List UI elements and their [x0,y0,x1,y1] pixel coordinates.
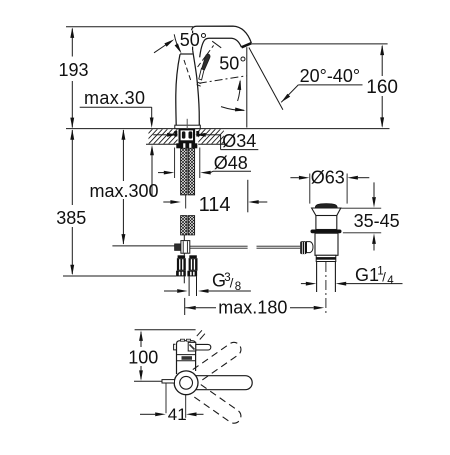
spout outlet face [242,43,252,47]
side view: swivel ghost tube up-right (dashed) [193,342,241,381]
drain seal ring [311,230,342,234]
left nut tail [183,276,185,283]
dimension 35-45 [339,207,381,209]
pop-up rod and tee [183,235,185,241]
dimension 160 (spout height) [381,46,383,76]
svg-text:Ø34: Ø34 [222,131,256,151]
pop-up rod reference line [112,245,174,247]
lever ghost position (dashed, up-right) [198,45,214,67]
dimension max.180 [184,298,186,315]
neck left edge segments [192,31,194,33]
supply connection nuts G3/8 [176,255,197,276]
hose stubs (lower) [181,216,187,235]
svg-text:50°: 50° [180,30,207,50]
side view: spout tube (solid) [190,376,252,390]
mounting shank assembly below deck [174,129,199,148]
dimension Ø63 [290,177,299,179]
dimension 114 (spout reach) [163,201,170,203]
faucet centre line tick [186,119,188,134]
water stream angle line [249,48,283,110]
outlet vertical reference line [246,47,248,127]
cone top rim [180,53,193,55]
svg-text:41: 41 [168,405,187,424]
angle arc with right arrow [221,107,244,111]
lever axis dash-dot line [199,76,247,83]
svg-text:max.30: max.30 [84,88,145,108]
svg-text:8: 8 [235,281,241,293]
drain bottom band [316,255,336,261]
side view: swivel ghost tube down-right (dashed) [193,385,241,424]
svg-text:20°-40°: 20°-40° [300,66,360,86]
drain pop-up waste assembly [290,167,402,316]
faucet lever handle [199,68,204,80]
drain upper body [316,216,337,230]
ball rod knob [300,241,306,254]
svg-text:G1: G1 [355,265,379,285]
drain tailpipe [316,262,318,293]
side view: faucet body [174,339,211,374]
dimension 193 (overall height) [71,29,73,57]
drain centre line [325,262,327,316]
bottom reference line (supply hose ends) [63,275,176,277]
dimension G3/8 [164,290,177,292]
side view: ghost lever dashes [197,330,202,336]
drain flange [312,208,341,216]
svg-text:max.300: max.300 [90,181,159,201]
countertop deck top line [66,128,390,130]
supply hoses (braided) [181,148,195,235]
svg-text:/: / [382,269,386,284]
svg-text:/: / [230,276,234,291]
svg-text:max.180: max.180 [218,297,287,317]
dimension 100 [139,330,143,341]
svg-text:4: 4 [387,275,394,287]
drain lower body [315,233,338,255]
horizontal pop-up rod [190,245,248,247]
top reference line (spout top level) [66,26,193,28]
deck hatching and deck bottom line [128,129,266,145]
svg-text:100: 100 [128,347,158,367]
side view: bottom reference line [134,380,162,382]
side view: lever tip reference line [135,329,196,331]
angle 20-40 label and leader [281,94,290,103]
base plinth [175,125,201,128]
angle 50 degrees (1) arc and leader [174,34,180,51]
side view: lever joint and rod [188,342,196,351]
faucet spout (swan neck) [192,26,252,43]
dimension max.300 (hose length) [122,130,124,181]
dimension Ø48 (base / extension lines) [174,148,176,179]
svg-text:Ø48: Ø48 [214,153,248,173]
svg-text:35-45: 35-45 [354,211,400,231]
lever ghost position (dashed, down-left) [184,60,191,81]
angle 50 (2) arc up-arrow [238,81,241,101]
svg-text:193: 193 [59,60,89,80]
svg-text:114: 114 [199,194,231,216]
svg-text:385: 385 [56,208,86,228]
drain dome cap [315,204,337,208]
side view: pop-up knob bar [162,380,175,383]
body left edge [176,54,180,125]
ball rod cup [307,242,314,253]
svg-text:50°: 50° [219,53,246,73]
spout outlet level line [252,43,388,45]
spout inner curve [200,38,242,57]
dimension 385 (overall depth incl hoses) [71,130,73,205]
dimension G1 1/4 [301,283,306,285]
svg-text:Ø63: Ø63 [311,167,345,187]
side view: pivot circle [174,371,198,395]
body right edge [193,50,200,125]
svg-text:160: 160 [366,77,398,98]
dimension Ø34 (shank) [153,134,167,136]
dimension 41 [165,384,167,414]
lever pivot tick marks [197,82,201,84]
right nut tails [188,276,190,296]
